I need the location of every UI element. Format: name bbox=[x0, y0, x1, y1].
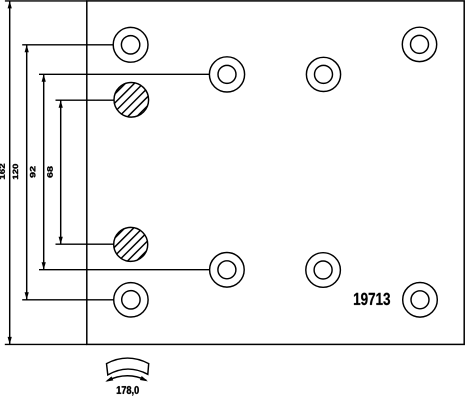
dimension 120 top arrow bbox=[25, 45, 29, 53]
rivet hole lower-middle-right bbox=[306, 253, 341, 288]
dimension 92 top arrow bbox=[42, 74, 46, 82]
curved arrow left head bbox=[105, 376, 113, 381]
top edge extension line bbox=[5, 0, 87, 2]
bottom edge extension line bbox=[5, 343, 87, 345]
dimension 68 line bbox=[60, 100, 62, 244]
rivet hole upper-middle-right bbox=[306, 57, 340, 91]
dimension 68 label bbox=[47, 166, 52, 177]
dimension 120 bottom arrow bbox=[25, 292, 29, 300]
width label 178,0 bbox=[117, 386, 139, 395]
dimension 120 label bbox=[13, 164, 18, 179]
curved arrow right head bbox=[140, 376, 148, 381]
dimension 120 line bbox=[26, 45, 28, 300]
leader line to hole row y=74.3 bbox=[39, 73, 209, 75]
dimension 68 bottom arrow bbox=[59, 237, 63, 245]
rivet hole lower-middle-left bbox=[210, 252, 245, 287]
curved width arrow bbox=[107, 376, 146, 381]
dimension 92 label bbox=[30, 166, 35, 177]
dimension 162 line bbox=[9, 1, 11, 345]
hatched hole lower (solid rivet) bbox=[114, 227, 148, 261]
dimension 68 top arrow bbox=[59, 100, 63, 108]
leader line to hole row y=44.8 bbox=[22, 44, 113, 46]
rivet hole upper-middle-left bbox=[209, 57, 244, 92]
rivet hole bottom-left bbox=[114, 283, 148, 317]
leader line to hole row y=244.2 bbox=[56, 243, 114, 245]
hatched hole upper (solid rivet) bbox=[114, 83, 149, 118]
leader line to hole row y=299.8 bbox=[22, 299, 114, 301]
rivet hole bottom-right bbox=[403, 283, 438, 318]
dimension 162 label bbox=[0, 164, 5, 179]
part number 19713 bbox=[354, 293, 390, 305]
rivet hole top-right bbox=[402, 27, 436, 61]
rivet hole top-left bbox=[113, 27, 148, 62]
plate outline (brake lining face) bbox=[87, 1, 464, 345]
dimension 162 top arrow bbox=[8, 1, 12, 8]
leader line to hole row y=269.7 bbox=[39, 269, 210, 271]
leader line to hole row y=100.2 bbox=[56, 99, 114, 101]
dimension 92 line bbox=[43, 74, 45, 269]
curved band symbol (lining cross-section) bbox=[107, 358, 149, 375]
dimension 162 bottom arrow bbox=[8, 337, 12, 345]
dimension 92 bottom arrow bbox=[42, 262, 46, 270]
